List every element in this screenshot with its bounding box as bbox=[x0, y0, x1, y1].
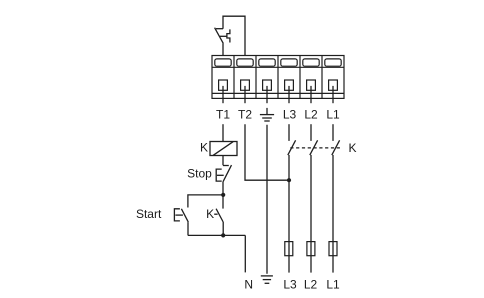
K aux contact blade bbox=[216, 209, 223, 222]
wire L1 upper bbox=[332, 124, 334, 141]
wire start to rail bbox=[187, 222, 189, 235]
earth symbol top line 2 bbox=[262, 117, 272, 119]
fuse L1 bbox=[329, 242, 337, 256]
stop contact blade bbox=[223, 165, 231, 181]
start contact blade bbox=[181, 209, 188, 222]
wire coil to stop contact bbox=[222, 156, 224, 166]
wire stub terminal 4 bbox=[288, 86, 290, 103]
svg-text:K: K bbox=[349, 141, 357, 155]
contactor coil K body bbox=[210, 142, 237, 156]
terminal 5 screw bbox=[307, 80, 316, 90]
wire stub terminal 1 bbox=[222, 86, 224, 103]
wire blade to block bbox=[222, 43, 224, 55]
contactor coil K diagonal bbox=[213, 142, 233, 156]
terminal 2 screw bbox=[241, 80, 250, 90]
svg-text:Start: Start bbox=[136, 207, 162, 221]
thermal switch (NC contact) fixed bar bbox=[216, 28, 223, 30]
terminal block top strip line bbox=[212, 66, 344, 68]
svg-text:Stop: Stop bbox=[187, 166, 212, 180]
wire rail to N bbox=[244, 235, 246, 272]
terminal block outer body bbox=[212, 56, 344, 99]
wire L3 upper bbox=[288, 124, 290, 141]
terminal block divider 4 bbox=[299, 56, 301, 99]
earth symbol bottom line 3 bbox=[265, 282, 270, 284]
terminal block divider 3 bbox=[277, 56, 279, 99]
earth symbol bottom line 2 bbox=[263, 279, 271, 281]
fuse L2 bbox=[307, 242, 315, 256]
wire stub terminal 2 bbox=[244, 86, 246, 103]
wire stub terminal 6 bbox=[332, 86, 334, 103]
wire L2 lower bbox=[310, 155, 312, 273]
stop button actuator bracket bbox=[216, 169, 222, 181]
wire stop to junction bbox=[222, 181, 224, 195]
svg-text:L3: L3 bbox=[283, 277, 297, 291]
stop button actuator link bbox=[217, 174, 224, 176]
wire T2 down to L3 junction bbox=[245, 124, 289, 180]
svg-text:L1: L1 bbox=[326, 277, 340, 291]
stop contact fixed bar bbox=[223, 165, 229, 167]
bottom rail wire bbox=[188, 234, 245, 236]
thermal actuator link bbox=[220, 35, 227, 37]
terminal block bottom strip line bbox=[212, 92, 344, 94]
svg-text:L2: L2 bbox=[304, 108, 318, 122]
contactor main contact L3 blade bbox=[288, 140, 296, 155]
start button actuator link bbox=[175, 214, 183, 216]
thermal actuator crank bbox=[227, 29, 230, 42]
contactor mechanical link dashed bbox=[290, 147, 341, 149]
terminal block divider 2 bbox=[255, 56, 257, 99]
node junction below stop bbox=[221, 193, 225, 197]
wire L3 lower bbox=[288, 155, 290, 273]
earth symbol top line 1 bbox=[260, 114, 274, 116]
contactor main contact L2 blade bbox=[310, 140, 318, 155]
svg-text:L1: L1 bbox=[326, 108, 340, 122]
node junction T2-L3 bbox=[287, 178, 291, 182]
terminal 6 label window bbox=[325, 59, 341, 66]
terminal 2 label window bbox=[237, 59, 253, 66]
svg-text:N: N bbox=[244, 277, 253, 291]
contactor main contact L1 blade bbox=[332, 140, 340, 155]
wire L2 upper bbox=[310, 124, 312, 141]
node junction on rail bbox=[221, 233, 225, 237]
wire K aux to rail bbox=[222, 222, 224, 235]
terminal 5 label window bbox=[303, 59, 319, 66]
terminal 4 screw bbox=[285, 80, 294, 90]
earth symbol top line 3 bbox=[264, 120, 269, 122]
earth wire bbox=[266, 125, 268, 274]
terminal 3 label window bbox=[259, 59, 275, 66]
earth symbol top stem bbox=[266, 108, 268, 115]
thermal switch blade bbox=[215, 28, 224, 44]
wire stub terminal 5 bbox=[310, 86, 312, 103]
svg-text:K: K bbox=[200, 141, 208, 155]
svg-text:K: K bbox=[206, 207, 214, 221]
terminal 4 label window bbox=[281, 59, 297, 66]
wire stub terminal 3 bbox=[266, 86, 268, 103]
terminal 1 label window bbox=[215, 59, 231, 66]
svg-text:L3: L3 bbox=[283, 108, 297, 122]
wire branch to start bbox=[188, 195, 223, 208]
K aux label link bbox=[214, 213, 217, 215]
wire L1 lower bbox=[332, 155, 334, 273]
wire T1 to coil bbox=[222, 124, 224, 141]
wire junction to K aux contact bbox=[222, 195, 224, 209]
wire loop T1 to T2 over thermal switch bbox=[223, 16, 245, 55]
start button actuator bracket bbox=[174, 209, 180, 221]
terminal block divider 1 bbox=[233, 56, 235, 99]
fuse L3 bbox=[285, 242, 293, 256]
terminal block divider 5 bbox=[321, 56, 323, 99]
svg-text:L2: L2 bbox=[304, 277, 318, 291]
terminal 1 screw bbox=[219, 80, 228, 90]
terminal 6 screw bbox=[329, 80, 338, 90]
svg-text:T1: T1 bbox=[216, 108, 230, 122]
svg-text:T2: T2 bbox=[238, 108, 252, 122]
terminal 3 screw bbox=[263, 80, 272, 90]
earth symbol bottom line 1 bbox=[261, 275, 273, 277]
